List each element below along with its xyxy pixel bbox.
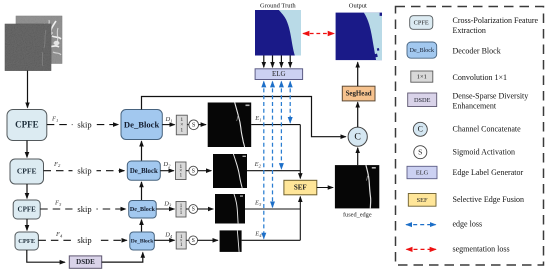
legend De_Block icon [407,42,437,58]
svg-text:De_Block: De_Block [131,239,155,245]
svg-text:skip: skip [77,166,91,176]
edge map image 1 [208,103,252,148]
legend segmentation loss arrow [407,248,436,250]
legend edge loss arrow [406,224,435,226]
convolution 1x1 box row1 [176,115,187,135]
svg-text:skip: skip [77,204,91,214]
svg-text:Channel Concatenate: Channel Concatenate [453,125,522,134]
CPFE block 2 [10,159,44,184]
label D2 and wire De_Block2 to conv row2 [160,161,174,171]
svg-text:fused_edge: fused_edge [343,211,372,218]
svg-text:edge loss: edge loss [453,220,483,229]
svg-text:De_Block: De_Block [124,119,160,129]
legend CPFE icon [410,16,433,30]
edge loss dashed arrow to row1 [289,82,291,123]
De_Block 4 [130,232,155,250]
CPFE block 4 [15,232,38,250]
SAR input image (front, darker) [5,24,51,71]
wire: fused_edge to concat C [357,148,359,165]
legend C icon [413,122,427,136]
wire: CPFE1 to CPFE2 [26,141,28,158]
svg-text:SEF: SEF [294,184,307,192]
edge map image 3 [215,194,245,224]
wire: CPFE4 to DSDE [27,250,65,262]
svg-text:1: 1 [180,128,183,134]
svg-text:skip: skip [77,235,91,245]
svg-text:Dense-Sparse Diversity: Dense-Sparse Diversity [453,91,529,100]
svg-text:S: S [192,122,196,129]
wire: SegHead to Output image [357,62,359,86]
edge loss dashed arrow to row2 [280,82,282,169]
svg-text:Cross-Polarization Feature: Cross-Polarization Feature [453,16,539,25]
sigmoid S row3 [186,205,198,214]
svg-text:S: S [192,168,195,174]
wires: Ground Truth to ELG (4 arrows) [263,56,265,68]
svg-text:Decoder Block: Decoder Block [453,47,501,56]
svg-text:segmentation loss: segmentation loss [453,244,510,253]
svg-text:1×1: 1×1 [417,74,427,81]
sigmoid S row1 [187,120,198,130]
De_Block 3 [129,201,157,219]
svg-text:Extraction: Extraction [453,26,486,35]
wire: S3 to edge map 3 [198,208,214,210]
svg-text:Selective Edge Fusion: Selective Edge Fusion [453,195,525,204]
wire: C to SegHead [357,102,359,127]
svg-text:DSDE: DSDE [414,97,431,104]
fused_edge image [335,165,379,218]
svg-text:C: C [418,125,423,134]
skip wire row4 [38,231,126,245]
legend SEF icon [408,194,436,207]
label E1 and wire edge map1 to fusion bus [251,115,300,125]
legend 1x1 icon [411,71,433,82]
svg-text:DSDE: DSDE [76,258,95,266]
legend ELG icon [407,166,437,178]
svg-text:skip: skip [77,119,91,129]
edge loss dashed arrow to row3 [272,82,274,208]
edge map image 4 [220,230,242,252]
label E3 and wire edge map3 to fusion bus [245,199,300,209]
svg-text:CPFE: CPFE [17,167,37,176]
svg-text:S: S [192,238,195,244]
svg-text:1: 1 [179,172,182,178]
wire: De_Block2 to De_Block1 [141,141,143,161]
SAR input image (back, lighter) [16,16,62,64]
sigmoid S row2 [186,166,198,175]
label D4 and wire De_Block4 to conv row4 [154,232,174,241]
label D1 and wire De_Block1 to conv1 [162,116,174,125]
skip wire row2 [44,161,125,176]
sigmoid S row4 [186,236,197,245]
edge loss dashed arrow to row4 [263,82,265,239]
svg-text:CPFE: CPFE [18,205,37,213]
svg-text:CPFE: CPFE [414,19,429,26]
convolution 1x1 box row3 [176,202,186,218]
wire: SEF to fused_edge [317,187,333,189]
svg-text:S: S [418,148,422,157]
fusion bus upper segment into SEF top [299,125,301,179]
channel concatenate C [348,127,367,146]
svg-text:SegHead: SegHead [346,91,372,98]
svg-text:Enhancement: Enhancement [453,101,497,110]
wire: S1 to edge map 1 [199,124,206,126]
wire: DSDE to De_Block4 [102,253,143,263]
SegHead block [342,86,375,101]
svg-text:C: C [354,132,361,143]
label E2 and wire edge map2 to fusion bus [247,161,300,171]
SEF block [284,180,317,195]
wire: CPFE2 to CPFE3 [26,184,28,198]
wire: S2 to edge map 2 [198,170,211,172]
segmentation loss dashed arrow GT to Output [303,33,334,35]
svg-text:S: S [192,207,195,213]
wire: input to CPFE1 [27,71,29,108]
legend dashed border [396,7,544,266]
DSDE block [69,256,101,268]
Ground Truth image [255,10,301,56]
svg-text:De_Block: De_Block [130,168,158,175]
edge map image 2 [213,154,247,188]
CPFE block 1 [7,110,47,141]
wire: De_Block3 to De_Block2 [141,182,143,201]
svg-text:CPFE: CPFE [15,119,39,129]
skip wire row3 [40,200,126,214]
legend DSDE icon [408,93,437,107]
convolution 1x1 box row2 [176,162,187,180]
svg-text:De_Block: De_Block [130,207,156,213]
label E4 and wire edge map4 to fusion bus [242,231,301,241]
legend S icon [414,146,427,159]
wire: De_Block4 to De_Block3 [141,220,143,232]
convolution 1x1 box row4 [176,232,186,249]
skip wire row1 [47,116,119,130]
wire: De_Block1 top to concat C [142,97,346,137]
svg-text:SEF: SEF [417,197,428,204]
Output image [336,13,382,61]
svg-text:CPFE: CPFE [18,238,35,245]
svg-text:Convolution 1×1: Convolution 1×1 [453,73,508,82]
De_Block 2 [127,161,160,180]
svg-text:Sigmoid Activation: Sigmoid Activation [453,148,515,157]
svg-text:ELG: ELG [416,169,429,176]
ELG block [255,69,303,80]
wire: S4 to edge map 4 [198,239,218,241]
De_Block 1 [121,110,162,140]
svg-text:ELG: ELG [272,70,286,78]
svg-text:Ground Truth: Ground Truth [260,2,296,9]
svg-text:Edge Label Generator: Edge Label Generator [453,168,524,177]
label D3 and wire De_Block3 to conv row3 [156,200,174,209]
svg-text:De_Block: De_Block [410,48,434,54]
svg-text:Output: Output [349,2,367,9]
CPFE block 3 [13,200,40,219]
wire: CPFE3 to CPFE4 [26,219,28,230]
fusion bus lower segment into SEF bottom [299,197,301,241]
